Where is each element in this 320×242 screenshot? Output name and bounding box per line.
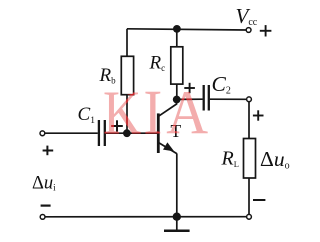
watermark KIA (pink underlay) bbox=[103, 77, 208, 148]
minus sign output bottom bbox=[253, 199, 265, 201]
wire emitter vertical bbox=[176, 153, 178, 216]
wire input terminal to C1 bbox=[45, 132, 98, 134]
wire collector node to C2 left plate bbox=[177, 98, 203, 100]
plus sign at Vcc bbox=[260, 25, 272, 36]
wire bottom rail bbox=[45, 216, 247, 218]
svg-text:A: A bbox=[166, 78, 208, 148]
wire Rc top stub bbox=[176, 29, 178, 47]
wire emitter diagonal bbox=[159, 143, 177, 154]
capacitor C2 plates bbox=[204, 85, 209, 111]
transistor T base bar bbox=[157, 113, 160, 153]
terminal circle Vcc bbox=[246, 28, 251, 33]
svg-text:I: I bbox=[143, 78, 162, 147]
wire output terminal down to RL bbox=[248, 102, 250, 139]
junction dot base / Rb bbox=[123, 129, 131, 137]
plus sign at C1 bbox=[111, 120, 123, 131]
wire C2 right plate to output terminal bbox=[210, 98, 247, 100]
wire top rail bbox=[127, 29, 246, 30]
ground stub bbox=[176, 217, 178, 231]
junction dot top rail / Rc bbox=[173, 25, 181, 33]
junction dot collector node bbox=[173, 96, 181, 104]
transistor T emitter arrow bbox=[163, 142, 174, 151]
ground bar bbox=[164, 229, 190, 232]
wire C1 to base bbox=[106, 132, 157, 134]
junction dot emitter / bottom rail bbox=[173, 213, 181, 221]
plus sign at C2 left bbox=[184, 83, 195, 93]
plus sign at input bbox=[43, 146, 54, 156]
terminal circle output top bbox=[247, 97, 252, 102]
capacitor C1 plates bbox=[99, 120, 105, 146]
wire Rb bottom stub bbox=[126, 95, 128, 133]
terminal circle input bottom bbox=[40, 215, 45, 220]
wire Rc bottom stub to collector node bbox=[176, 84, 178, 99]
svg-text:K: K bbox=[103, 77, 141, 147]
resistor Rb bbox=[121, 56, 133, 94]
plus sign above RL bbox=[253, 110, 264, 120]
minus sign input bottom bbox=[41, 205, 51, 207]
resistor RL bbox=[244, 139, 256, 179]
terminal circle output bottom bbox=[247, 214, 252, 219]
wire RL bottom to output ground terminal bbox=[248, 178, 250, 214]
resistor Rc bbox=[171, 47, 183, 84]
terminal circle input top bbox=[40, 131, 45, 136]
wire collector diagonal bbox=[159, 100, 177, 116]
wire Rb top stub bbox=[126, 29, 128, 57]
